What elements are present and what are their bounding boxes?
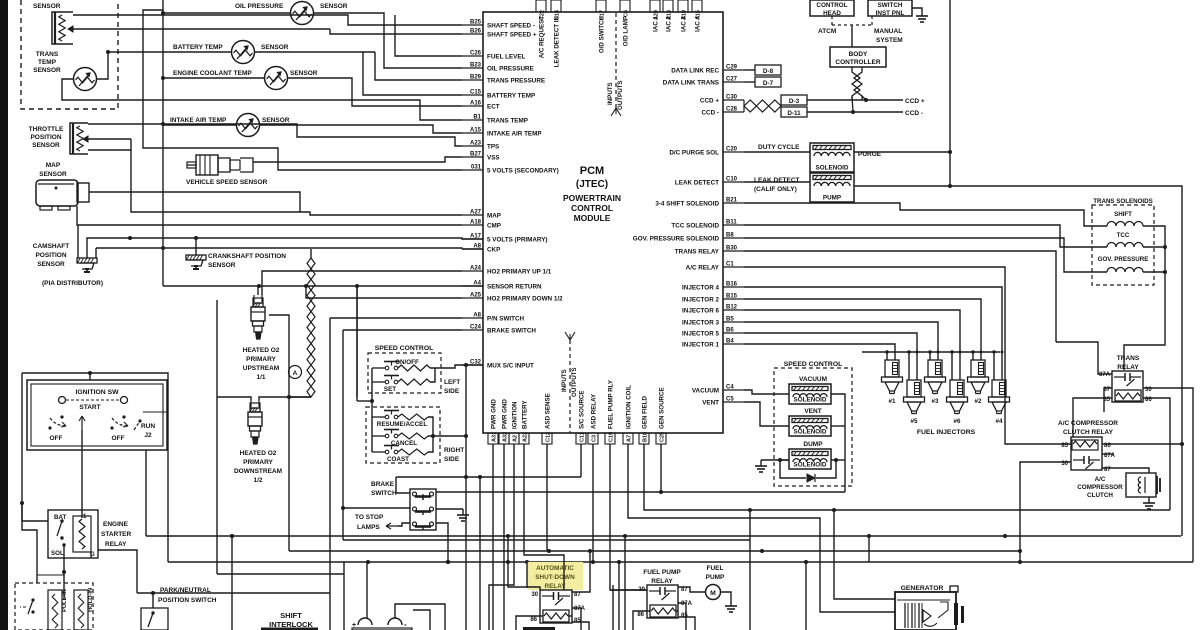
wire brake sw mid to C24 bus bbox=[343, 507, 410, 509]
wire trans relay 87 bbox=[1104, 388, 1112, 412]
ground inst panel bbox=[912, 8, 922, 10]
wire o2 loop left bbox=[216, 300, 218, 397]
wire tps return bbox=[88, 150, 462, 215]
svg-text:DATA LINK REC: DATA LINK REC bbox=[671, 68, 719, 75]
wire gen source down bbox=[660, 444, 662, 492]
svg-text:O/D LAMP: O/D LAMP bbox=[623, 16, 630, 46]
wire trunk vertical B bbox=[143, 10, 462, 170]
transmission dashed box bbox=[21, 0, 118, 109]
bus o2 return bbox=[217, 573, 344, 575]
wire oil pressure bbox=[163, 12, 291, 14]
dump solenoid bbox=[789, 449, 831, 469]
svg-text:TRANS: TRANS bbox=[1117, 355, 1140, 362]
PCM U1 Powertrain Control Module bbox=[483, 12, 723, 433]
wire inst panel trunk bbox=[949, 0, 951, 186]
svg-text:CMP: CMP bbox=[487, 223, 501, 230]
wire a/c relay feed bbox=[744, 267, 1071, 444]
wire 3-4 shift bbox=[744, 203, 1107, 226]
svg-text:D-11: D-11 bbox=[787, 110, 801, 117]
svg-text:CKP: CKP bbox=[487, 247, 500, 254]
svg-text:IAC 1: IAC 1 bbox=[653, 15, 660, 31]
wire ccd+ out bbox=[807, 99, 903, 101]
svg-text:HO2 PRIMARY UP 1/1: HO2 PRIMARY UP 1/1 bbox=[487, 269, 552, 276]
wire drop 750 bbox=[749, 510, 751, 630]
svg-text:HEATED O2: HEATED O2 bbox=[240, 450, 277, 457]
svg-text:DUMP: DUMP bbox=[803, 441, 823, 448]
starter solenoid dashed box bbox=[15, 583, 93, 630]
svg-text:SWITCH: SWITCH bbox=[371, 490, 397, 497]
svg-text:CLUTCH RELAY: CLUTCH RELAY bbox=[1063, 429, 1114, 436]
svg-text:IAC 4: IAC 4 bbox=[695, 15, 702, 31]
svg-text:D-3: D-3 bbox=[789, 98, 800, 105]
wire fuel level bbox=[395, 15, 462, 56]
svg-text:CAMSHAFT: CAMSHAFT bbox=[33, 243, 69, 250]
svg-text:SWITCH: SWITCH bbox=[878, 2, 903, 9]
wire s/c mux bbox=[430, 365, 483, 368]
wire solenoid commons bbox=[1124, 226, 1165, 370]
svg-text:GENERATOR: GENERATOR bbox=[901, 585, 944, 592]
svg-text:PRIMARY: PRIMARY bbox=[243, 459, 273, 466]
pull-in coil bbox=[48, 590, 62, 630]
svg-text:S/C SOURCE: S/C SOURCE bbox=[579, 390, 586, 429]
brake switch assembly bbox=[410, 489, 436, 530]
svg-text:TRANS PRESSURE: TRANS PRESSURE bbox=[487, 78, 545, 85]
svg-text:INPUTS: INPUTS bbox=[561, 369, 568, 392]
svg-text:C12: C12 bbox=[546, 432, 552, 442]
svg-text:COAST: COAST bbox=[387, 456, 409, 463]
svg-text:PUMP: PUMP bbox=[823, 195, 841, 202]
wire start to relay bbox=[81, 430, 83, 518]
svg-text:D/C PURGE SOL: D/C PURGE SOL bbox=[669, 150, 719, 157]
svg-text:SENSOR: SENSOR bbox=[262, 117, 290, 124]
wire shaft speed - bbox=[73, 15, 462, 25]
vent solenoid bbox=[789, 416, 831, 436]
svg-text:LAMPS: LAMPS bbox=[357, 524, 380, 531]
wire pnp bbox=[137, 592, 330, 594]
wire o2 heater loop bbox=[269, 315, 311, 397]
svg-text:HO2 PRIMARY DOWN 1/2: HO2 PRIMARY DOWN 1/2 bbox=[487, 296, 563, 303]
svg-text:SHIFT: SHIFT bbox=[1114, 211, 1132, 218]
svg-text:GEN FIELD: GEN FIELD bbox=[642, 395, 649, 429]
node A circled bbox=[289, 366, 302, 379]
wire fp 87A bbox=[678, 603, 686, 630]
svg-text:MAP: MAP bbox=[46, 162, 61, 169]
svg-text:SOLENOID: SOLENOID bbox=[794, 397, 827, 404]
wire clutch switch drop bbox=[464, 475, 468, 479]
wire tps signal bbox=[88, 138, 131, 140]
PCM top pins bbox=[536, 0, 546, 12]
wire asd contact common bbox=[524, 444, 564, 590]
ignition switch outer wire bbox=[22, 373, 168, 562]
svg-text:POSITION: POSITION bbox=[35, 252, 66, 259]
svg-text:INTAKE AIR TEMP: INTAKE AIR TEMP bbox=[170, 117, 227, 124]
svg-text:#6: #6 bbox=[953, 418, 961, 425]
svg-text:ASD SENSE: ASD SENSE bbox=[545, 393, 552, 429]
bus brake switch bbox=[343, 329, 462, 331]
svg-text:FUEL PUMP: FUEL PUMP bbox=[643, 569, 681, 576]
svg-text:OUTPUTS: OUTPUTS bbox=[571, 367, 578, 397]
svg-text:#4: #4 bbox=[995, 418, 1003, 425]
fuel injector #4 bbox=[992, 380, 1006, 397]
inputs outputs divider bottom bbox=[569, 340, 571, 433]
svg-text:85: 85 bbox=[574, 618, 581, 624]
svg-text:M: M bbox=[710, 590, 716, 597]
svg-text:PWR GND: PWR GND bbox=[502, 399, 509, 429]
svg-text:TRANS SOLENOIDS: TRANS SOLENOIDS bbox=[1093, 198, 1152, 205]
wire brake sw mid right ground bbox=[436, 508, 463, 510]
svg-text:P/N SWITCH: P/N SWITCH bbox=[487, 316, 525, 323]
wire sol down bbox=[63, 545, 65, 600]
svg-text:86: 86 bbox=[637, 612, 644, 618]
wire ho2 up signal bbox=[262, 271, 462, 295]
svg-text:SENSOR: SENSOR bbox=[32, 142, 60, 149]
svg-text:SENSOR: SENSOR bbox=[208, 262, 236, 269]
svg-text:HEATED O2: HEATED O2 bbox=[243, 347, 280, 354]
svg-text:1/2: 1/2 bbox=[253, 477, 262, 484]
svg-text:(JTEC): (JTEC) bbox=[576, 179, 608, 190]
wire trans relay 30 bbox=[1143, 388, 1193, 562]
data link boxes bbox=[744, 69, 755, 71]
injector rail bbox=[862, 351, 1000, 353]
wire downstream o2 top bbox=[217, 397, 251, 400]
wire fuel pump rly down bbox=[610, 444, 647, 590]
svg-text:INPUTS: INPUTS bbox=[607, 82, 614, 105]
wire map signal bbox=[89, 192, 300, 212]
svg-text:HEAD: HEAD bbox=[823, 10, 841, 17]
svg-text:87: 87 bbox=[681, 587, 688, 593]
svg-text:86: 86 bbox=[530, 617, 537, 623]
svg-text:VACUUM: VACUUM bbox=[799, 376, 827, 383]
wire drop 806 bbox=[805, 562, 807, 630]
svg-text:ECT: ECT bbox=[487, 104, 500, 111]
wire map return bbox=[77, 206, 462, 225]
svg-text:C19: C19 bbox=[609, 432, 615, 442]
svg-text:FUEL LEVEL: FUEL LEVEL bbox=[487, 54, 526, 61]
heated O2 downstream sensor bbox=[250, 400, 252, 407]
wire intake air temp bbox=[163, 124, 237, 126]
svg-text:1/1: 1/1 bbox=[256, 374, 265, 381]
svg-text:GEN SOURCE: GEN SOURCE bbox=[659, 387, 666, 429]
wire asd sense down bbox=[546, 444, 548, 551]
svg-text:LEAK DETECT: LEAK DETECT bbox=[675, 180, 719, 187]
svg-text:OFF: OFF bbox=[112, 435, 125, 442]
svg-text:POWERTRAIN: POWERTRAIN bbox=[563, 193, 621, 203]
svg-text:SOL: SOL bbox=[51, 550, 64, 557]
svg-text:PUMP: PUMP bbox=[706, 574, 725, 581]
svg-text:A22: A22 bbox=[523, 432, 529, 442]
svg-text:MANUAL: MANUAL bbox=[874, 28, 902, 35]
svg-text:85: 85 bbox=[681, 613, 688, 619]
svg-text:PULL-IN: PULL-IN bbox=[62, 589, 68, 612]
heated O2 upstream sensor bbox=[253, 295, 255, 302]
svg-text:RELAY: RELAY bbox=[105, 541, 127, 548]
svg-text:VENT: VENT bbox=[804, 408, 821, 415]
svg-text:CCD +: CCD + bbox=[905, 98, 925, 105]
wire ccd- out bbox=[807, 111, 903, 113]
trans solenoids dashed box bbox=[1092, 205, 1154, 285]
battery bbox=[358, 618, 372, 625]
wire pump ground bbox=[721, 592, 732, 600]
wire battery feeds bbox=[343, 562, 345, 630]
svg-text:GOV. PRESSURE: GOV. PRESSURE bbox=[1098, 256, 1149, 263]
wire brake sw bottom bbox=[398, 523, 410, 526]
wire battery branch bbox=[37, 574, 64, 576]
svg-text:BODY: BODY bbox=[849, 51, 868, 58]
wire ckp bbox=[195, 238, 197, 255]
svg-text:OIL PRESSURE: OIL PRESSURE bbox=[487, 66, 534, 73]
svg-text:VSS: VSS bbox=[487, 155, 500, 162]
svg-text:START: START bbox=[79, 404, 100, 411]
crankshaft position sensor bbox=[186, 255, 206, 260]
svg-text:MAP: MAP bbox=[487, 213, 501, 220]
svg-text:SENSOR: SENSOR bbox=[290, 70, 318, 77]
svg-text:PWR GND: PWR GND bbox=[491, 399, 498, 429]
svg-text:FUEL: FUEL bbox=[707, 565, 724, 572]
wire trans temp signal bbox=[97, 52, 109, 79]
ccd twisted pair bbox=[744, 100, 756, 112]
wire ac 30 bbox=[1020, 462, 1071, 562]
speed control switch box right bbox=[366, 407, 440, 463]
svg-text:IGNITION SW: IGNITION SW bbox=[75, 389, 119, 396]
svg-text:SOLENOID: SOLENOID bbox=[794, 462, 827, 469]
svg-text:A/C: A/C bbox=[1095, 476, 1106, 483]
switch set bbox=[385, 380, 389, 384]
svg-text:CCD -: CCD - bbox=[905, 110, 923, 117]
wire ac 86 bbox=[1102, 443, 1182, 445]
svg-text:SHIFT: SHIFT bbox=[280, 611, 302, 620]
svg-text:C6: C6 bbox=[624, 10, 630, 17]
wire asd 85 bbox=[568, 615, 572, 617]
wire fp feed bbox=[618, 562, 620, 630]
svg-text:STARTER: STARTER bbox=[101, 531, 132, 538]
svg-text:(PIA DISTRIBUTOR): (PIA DISTRIBUTOR) bbox=[42, 280, 103, 287]
svg-text:SENSOR: SENSOR bbox=[261, 44, 289, 51]
speed control switch box left bbox=[368, 353, 441, 393]
svg-text:A2: A2 bbox=[513, 435, 519, 442]
fuel pump relay box bbox=[647, 585, 678, 618]
wire fp 87 to pump bbox=[678, 587, 706, 592]
svg-text:DUTY CYCLE: DUTY CYCLE bbox=[758, 144, 800, 151]
wire trans relay 86 bbox=[1143, 398, 1170, 510]
svg-text:C25: C25 bbox=[660, 432, 666, 442]
svg-text:UPSTREAM: UPSTREAM bbox=[243, 365, 279, 372]
svg-text:FUEL PUMP RLY: FUEL PUMP RLY bbox=[608, 379, 615, 429]
clutch ground bbox=[1148, 497, 1150, 503]
svg-text:5 VOLTS (PRIMARY): 5 VOLTS (PRIMARY) bbox=[487, 237, 548, 244]
wire tps top bbox=[88, 124, 462, 146]
svg-text:DATA LINK TRANS: DATA LINK TRANS bbox=[663, 80, 719, 87]
switch on/off bbox=[385, 366, 389, 370]
wire battery temp bbox=[163, 51, 232, 53]
svg-text:LEAK DETECT IN: LEAK DETECT IN bbox=[554, 15, 561, 67]
svg-text:POSITION: POSITION bbox=[30, 134, 61, 141]
svg-text:SOLENOID: SOLENOID bbox=[794, 429, 827, 436]
bus ign run bbox=[289, 550, 1020, 552]
leak detect pump bbox=[810, 173, 854, 202]
svg-text:POSITION SWITCH: POSITION SWITCH bbox=[158, 597, 217, 604]
fuel injector #6 bbox=[950, 380, 964, 397]
svg-text:PCM: PCM bbox=[580, 165, 604, 177]
wire asd 30 bbox=[508, 536, 540, 590]
svg-text:TEMP: TEMP bbox=[38, 59, 57, 66]
svg-text:#1: #1 bbox=[888, 398, 896, 405]
twisted pair below body controller bbox=[852, 67, 860, 100]
bus asd sense bbox=[146, 535, 1181, 537]
wire trans relay 85 bbox=[1073, 398, 1112, 437]
switch coast bbox=[385, 450, 389, 454]
wire o2 heater down bbox=[288, 397, 290, 551]
svg-text:PRIMARY: PRIMARY bbox=[246, 356, 276, 363]
svg-text:SIDE: SIDE bbox=[444, 456, 460, 463]
trans temp thermistor bbox=[74, 68, 97, 91]
bus 540 bbox=[343, 539, 750, 541]
svg-text:RELAY: RELAY bbox=[544, 583, 566, 590]
svg-text:SHAFT SPEED +: SHAFT SPEED + bbox=[487, 32, 537, 39]
svg-text:RIGHT: RIGHT bbox=[444, 447, 464, 454]
svg-text:#3: #3 bbox=[931, 398, 939, 405]
pnp switch symbol bbox=[141, 608, 168, 630]
svg-text:O/D SWITCH: O/D SWITCH bbox=[599, 15, 606, 53]
wire solenoid commons right bbox=[831, 394, 845, 492]
a/c compressor clutch bbox=[1126, 473, 1156, 497]
svg-text:IAC 2: IAC 2 bbox=[666, 15, 673, 31]
svg-text:#5: #5 bbox=[910, 418, 918, 425]
svg-text:INJECTOR 4: INJECTOR 4 bbox=[682, 285, 719, 292]
svg-text:87A: 87A bbox=[1099, 372, 1111, 378]
svg-text:5 VOLTS (SECONDARY): 5 VOLTS (SECONDARY) bbox=[487, 168, 559, 175]
svg-text:TRANS TEMP: TRANS TEMP bbox=[487, 118, 528, 125]
svg-text:SET: SET bbox=[384, 386, 396, 393]
wire loop bottom right bbox=[366, 561, 368, 563]
wire asd 86 bbox=[516, 616, 543, 630]
engine starter relay bbox=[48, 510, 98, 558]
wire ect bbox=[163, 77, 265, 79]
svg-text:87A: 87A bbox=[681, 601, 693, 607]
inputs outputs divider top bbox=[615, 13, 617, 108]
wire vent bbox=[744, 402, 789, 426]
svg-text:INJECTOR 3: INJECTOR 3 bbox=[682, 320, 719, 327]
svg-text:BAT: BAT bbox=[54, 514, 66, 521]
dump ground bbox=[761, 459, 789, 461]
shift interlock box top bbox=[523, 627, 555, 630]
speed control solenoid dashed box bbox=[774, 368, 852, 486]
svg-text:SHAFT SPEED -: SHAFT SPEED - bbox=[487, 23, 535, 30]
svg-text:VACUUM: VACUUM bbox=[692, 388, 719, 395]
switch inst panel box bbox=[868, 0, 912, 16]
fuel injector #3 bbox=[928, 360, 942, 377]
wire trans relay 87A bbox=[1056, 342, 1112, 374]
svg-text:IGNITION COIL: IGNITION COIL bbox=[626, 385, 633, 429]
d-3 box bbox=[781, 95, 807, 105]
svg-text:J2: J2 bbox=[144, 432, 152, 439]
wire cmp bbox=[87, 238, 483, 258]
svg-text:BATTERY: BATTERY bbox=[522, 400, 529, 429]
svg-text:A32: A32 bbox=[503, 432, 509, 442]
wire s/c source to brake switch bbox=[396, 476, 581, 478]
wire drop 625 bbox=[624, 536, 626, 630]
wire fp 86 bbox=[633, 611, 650, 630]
svg-text:MODULE: MODULE bbox=[574, 213, 611, 223]
svg-text:MUX S/C INPUT: MUX S/C INPUT bbox=[487, 363, 534, 370]
svg-text:INJECTOR 5: INJECTOR 5 bbox=[682, 331, 719, 338]
svg-text:(CALIF ONLY): (CALIF ONLY) bbox=[754, 186, 797, 193]
wire tcc bbox=[744, 225, 1107, 247]
svg-text:RESUME/ACCEL: RESUME/ACCEL bbox=[377, 421, 428, 428]
ignition switch box bbox=[27, 380, 167, 450]
svg-text:ENGINE: ENGINE bbox=[103, 521, 129, 528]
map sensor body bbox=[36, 180, 78, 206]
vehicle speed sensor bbox=[187, 164, 196, 166]
svg-text:A/C COMPRESSOR: A/C COMPRESSOR bbox=[1058, 420, 1118, 427]
wire ac 87A stub bbox=[1102, 453, 1114, 455]
a/c compressor clutch relay bbox=[1071, 437, 1102, 470]
svg-text:CCD +: CCD + bbox=[700, 98, 719, 105]
wire interlock drop bbox=[230, 534, 234, 538]
wire asd 30 drop bbox=[526, 562, 528, 588]
wire gov pressure bbox=[744, 238, 1107, 272]
svg-text:INJECTOR 2: INJECTOR 2 bbox=[682, 297, 719, 304]
fuel injector #2 bbox=[971, 360, 985, 377]
svg-text:OFF: OFF bbox=[50, 435, 63, 442]
wire pump out bbox=[744, 181, 810, 183]
svg-text:SIDE: SIDE bbox=[444, 388, 460, 395]
svg-text:3-4 SHIFT SOLENOID: 3-4 SHIFT SOLENOID bbox=[655, 201, 719, 208]
svg-text:LEFT: LEFT bbox=[444, 379, 460, 386]
wire shaft speed + arrow bbox=[330, 29, 462, 34]
wire vss bbox=[253, 157, 462, 162]
wire fp 30 bbox=[610, 589, 647, 591]
svg-text:SENSOR: SENSOR bbox=[33, 3, 61, 10]
wire pcm pwr gnds bbox=[492, 444, 494, 630]
dashed link control head bbox=[831, 16, 833, 25]
purge solenoid bbox=[810, 143, 854, 172]
wire ac 87 to clutch bbox=[1102, 468, 1149, 473]
svg-text:SENSOR RETURN: SENSOR RETURN bbox=[487, 284, 542, 291]
wire asd relay down bbox=[592, 444, 594, 562]
svg-text:CCD -: CCD - bbox=[702, 110, 720, 117]
bus p/n switch bbox=[330, 317, 462, 319]
wire injector feeds bbox=[744, 344, 895, 360]
d-11 box bbox=[781, 107, 807, 117]
wire trans pressure bbox=[108, 51, 163, 53]
svg-text:THROTTLE: THROTTLE bbox=[29, 126, 64, 133]
svg-text:TRANS RELAY: TRANS RELAY bbox=[675, 249, 720, 256]
vacuum solenoid bbox=[789, 384, 831, 404]
svg-text:GOV. PRESSURE SOLENOID: GOV. PRESSURE SOLENOID bbox=[633, 236, 720, 243]
svg-text:SPEED CONTROL: SPEED CONTROL bbox=[375, 345, 434, 352]
svg-text:VEHICLE SPEED SENSOR: VEHICLE SPEED SENSOR bbox=[186, 179, 268, 186]
svg-text:BATTERY TEMP: BATTERY TEMP bbox=[173, 44, 223, 51]
svg-text:CLUTCH: CLUTCH bbox=[1087, 492, 1113, 499]
dump diode loop bbox=[780, 460, 806, 478]
svg-text:D-7: D-7 bbox=[763, 80, 774, 87]
svg-text:SPEED CONTROL: SPEED CONTROL bbox=[784, 361, 843, 368]
svg-text:INJECTOR 1: INJECTOR 1 bbox=[682, 342, 719, 349]
wire starter relay G bbox=[90, 552, 92, 558]
svg-text:A31: A31 bbox=[492, 432, 498, 442]
svg-text:ASD RELAY: ASD RELAY bbox=[591, 393, 598, 429]
svg-text:85: 85 bbox=[1061, 443, 1068, 449]
bus batt bbox=[168, 561, 1193, 563]
svg-text:SENSOR: SENSOR bbox=[320, 3, 348, 10]
svg-text:INTAKE AIR TEMP: INTAKE AIR TEMP bbox=[487, 131, 542, 138]
svg-text:ENGINE COOLANT TEMP: ENGINE COOLANT TEMP bbox=[173, 70, 252, 77]
svg-text:A/C REQUEST: A/C REQUEST bbox=[539, 16, 546, 59]
svg-text:BATTERY TEMP: BATTERY TEMP bbox=[487, 93, 535, 100]
svg-text:RUN: RUN bbox=[141, 423, 155, 430]
svg-text:ON/OFF: ON/OFF bbox=[395, 359, 419, 366]
svg-text:SENSOR: SENSOR bbox=[33, 67, 61, 74]
